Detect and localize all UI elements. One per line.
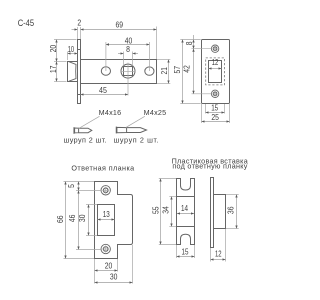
dim 20 (top to bolt) <box>48 40 76 62</box>
insert middle lines <box>177 196 195 198</box>
spindle circle <box>121 64 135 78</box>
dim 66 (plate height) <box>55 182 94 259</box>
oval hole left <box>101 67 110 75</box>
dashed cutout <box>206 58 225 85</box>
svg-text:под ответную планку: под ответную планку <box>172 161 247 170</box>
dim 20 (plate width) <box>95 259 118 284</box>
dim 57 (plate height) <box>172 40 201 104</box>
dim 45 (to spindle center) <box>81 85 129 95</box>
screw M4x16 <box>74 127 92 134</box>
dim 30 (latch hole height) <box>77 205 97 236</box>
dim 10 (bolt width) <box>68 44 78 60</box>
svg-text:13: 13 <box>103 209 110 219</box>
svg-text:2: 2 <box>77 17 81 27</box>
strike screw hole bottom <box>101 244 110 253</box>
dim 2 (faceplate thickness) <box>72 17 82 39</box>
svg-text:36: 36 <box>225 206 235 214</box>
svg-text:С-45: С-45 <box>18 18 34 28</box>
dim 15 (cutout width) <box>206 102 225 113</box>
svg-text:Ответная планка: Ответная планка <box>71 163 134 172</box>
dim 21 (body height) <box>157 60 170 84</box>
screw hole bottom <box>211 90 218 97</box>
dim 12 (insert depth) <box>211 229 226 262</box>
insert side body <box>214 195 226 229</box>
svg-text:12: 12 <box>215 248 222 258</box>
svg-text:69: 69 <box>116 19 124 29</box>
svg-text:15: 15 <box>182 247 189 257</box>
insert side flange <box>211 178 214 248</box>
insert front outline <box>177 179 195 245</box>
svg-text:20: 20 <box>105 261 113 271</box>
svg-text:55: 55 <box>151 206 161 214</box>
dim 36 (body height) <box>225 195 238 229</box>
leader M4x16 <box>79 116 100 128</box>
dim 17 (bolt height) <box>48 62 66 82</box>
svg-text:34: 34 <box>160 206 170 214</box>
dim 25 (plate width) <box>202 104 230 123</box>
svg-text:20: 20 <box>48 45 58 53</box>
svg-text:шуруп 2 шт.: шуруп 2 шт. <box>64 135 108 144</box>
centerline horizontal of spindle <box>120 71 135 73</box>
svg-text:25: 25 <box>211 112 219 122</box>
svg-text:15: 15 <box>211 102 218 112</box>
svg-text:M4x16: M4x16 <box>99 108 122 117</box>
svg-text:M4x25: M4x25 <box>144 108 167 117</box>
svg-text:57: 57 <box>172 66 182 74</box>
centerline vertical of spindle + ext to 45 dim <box>127 63 129 96</box>
svg-text:42: 42 <box>181 65 191 73</box>
dim 30 (overall width) <box>95 245 133 284</box>
dim 13 (hole width) <box>98 209 115 220</box>
faceplate plate <box>202 40 230 104</box>
svg-text:шуруп 2 шт.: шуруп 2 шт. <box>114 135 160 144</box>
dim 46 (hole centers) <box>67 191 101 250</box>
svg-text:30: 30 <box>110 272 118 282</box>
svg-text:21: 21 <box>159 67 169 74</box>
strike latch hole <box>98 205 115 236</box>
svg-text:12: 12 <box>212 57 219 67</box>
svg-text:14: 14 <box>181 203 188 213</box>
latch opening <box>209 61 222 83</box>
svg-text:66: 66 <box>55 215 65 223</box>
dim 8 (top hole offset) <box>184 35 194 49</box>
spindle square hole <box>124 67 133 76</box>
svg-text:8: 8 <box>126 44 130 54</box>
svg-text:17: 17 <box>48 65 58 72</box>
svg-text:5: 5 <box>66 184 76 188</box>
oval hole right <box>145 67 154 75</box>
svg-text:46: 46 <box>67 214 77 222</box>
dim 69 (body length) <box>81 19 157 59</box>
strike screw hole top <box>101 186 110 195</box>
latch bolt <box>68 62 78 82</box>
dim 8 (square width) <box>118 44 138 66</box>
dim 40 (hole centers) <box>106 35 149 71</box>
leader M4x25 <box>126 116 145 127</box>
svg-text:45: 45 <box>99 85 107 95</box>
svg-text:8: 8 <box>184 41 194 45</box>
screw hole top <box>211 45 218 52</box>
dim 5 (top offset) <box>66 182 78 191</box>
dim 14 (middle width) <box>177 203 194 213</box>
screw M4x25 <box>116 127 146 134</box>
strike plate outline <box>95 182 133 259</box>
dim 12 (opening width) <box>209 57 222 68</box>
svg-text:10: 10 <box>68 44 75 54</box>
dim 34 (middle height) <box>160 197 176 227</box>
dim 15 (insert width) <box>177 245 195 258</box>
dim 42 (hole centers) <box>181 49 211 94</box>
dim 55 (insert height) <box>151 179 176 245</box>
faceplate edge-on bar <box>78 40 81 104</box>
svg-text:30: 30 <box>77 214 87 222</box>
latch body <box>81 60 157 84</box>
